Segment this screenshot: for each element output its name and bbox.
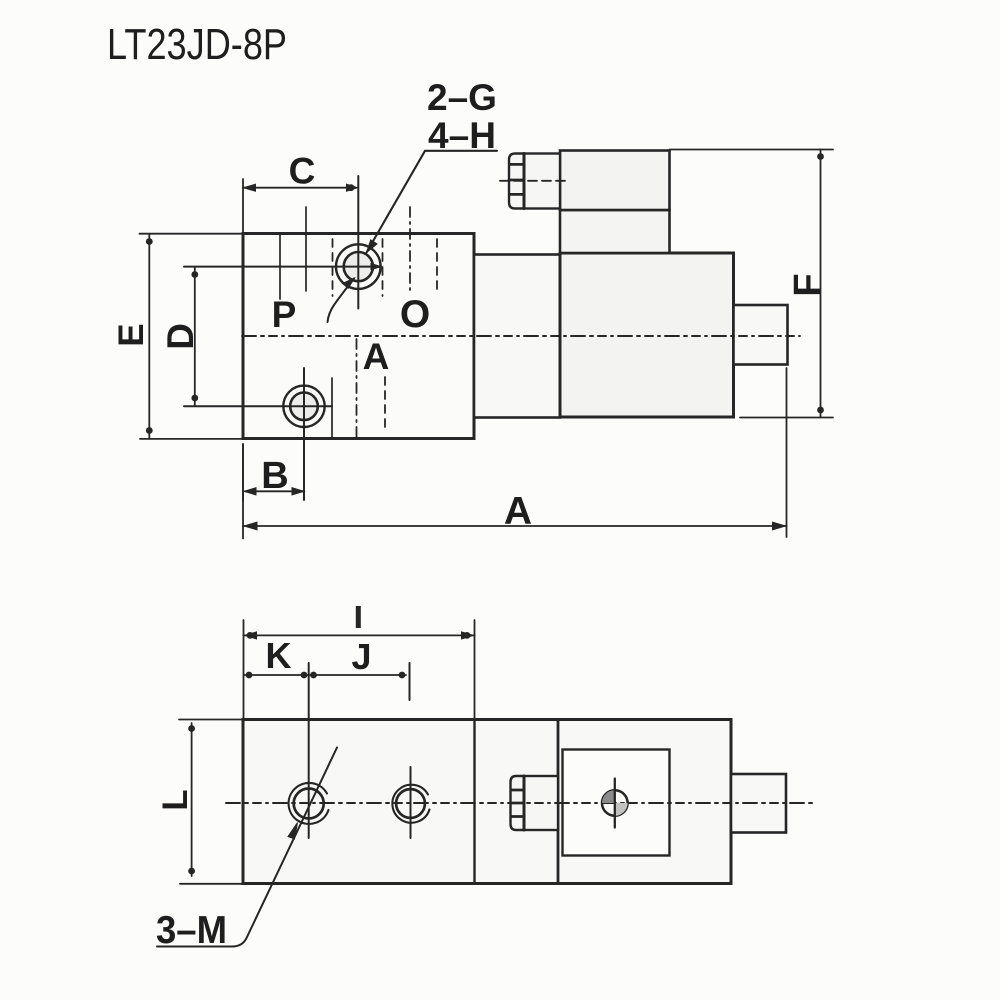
dimension D line [194, 267, 196, 406]
main center line (dash-dot) [242, 335, 800, 337]
lower center line [226, 802, 815, 804]
dimension E extension bottom [140, 438, 243, 440]
port A hole inner circle [290, 393, 318, 421]
leader blob on thread arc [288, 823, 298, 840]
svg-text:P: P [272, 294, 297, 335]
3-M underline and leader [157, 748, 337, 947]
svg-text:J: J [351, 636, 371, 677]
lower gland plain part [524, 776, 558, 830]
dimension I extension left [243, 620, 245, 720]
lower body outline [243, 720, 731, 884]
adapter section [474, 255, 560, 418]
svg-text:O: O [400, 293, 430, 336]
cable gland threaded part [509, 154, 524, 209]
hidden line g lower solid [331, 378, 333, 439]
svg-text:2–G: 2–G [427, 77, 497, 118]
hole1 horizontal center line [184, 266, 381, 268]
leader2 at hole1 lower left [328, 279, 355, 323]
lower inner square [563, 750, 670, 856]
svg-text:A: A [504, 490, 532, 533]
hole 3-M inner circle [294, 789, 324, 819]
gland center line [500, 180, 568, 182]
screw shading lower-right [615, 803, 628, 816]
dimension A extension left [242, 444, 244, 539]
right port [734, 305, 788, 365]
port P hole outer circle [336, 244, 381, 289]
main valve body [243, 234, 474, 439]
hidden line c dashed [332, 239, 334, 296]
hole 3-M thread arc [289, 783, 329, 824]
hidden line b [305, 207, 307, 291]
lower adapter/solenoid boundary [557, 720, 560, 884]
hidden line d dashed [382, 239, 384, 296]
lower gland threaded part [511, 776, 525, 830]
svg-text:B: B [261, 455, 288, 497]
port P hole inner circle [344, 252, 373, 281]
dimension C extension left [242, 179, 244, 233]
dimension E extension top [140, 233, 244, 235]
hidden line f dashed [436, 239, 438, 294]
hidden line e dash-dot [409, 207, 411, 293]
hole1 vertical extension line [357, 176, 359, 309]
svg-text:3–M: 3–M [156, 909, 227, 952]
dimension A extension right [786, 368, 788, 537]
dimension E line [148, 234, 150, 438]
dimension L extension top [179, 719, 243, 721]
label I [356, 606, 361, 628]
cable gland plain part [524, 154, 560, 209]
coil neck [560, 210, 670, 253]
hidden line a [279, 234, 281, 300]
svg-text:LT23JD-8P: LT23JD-8P [107, 20, 287, 69]
screw circle [602, 790, 628, 816]
arrow on hole1 horizontal line [371, 264, 381, 270]
port A hole outer circle [283, 386, 324, 427]
lower body/adapter boundary [473, 720, 475, 884]
svg-text:E: E [112, 323, 151, 346]
dimension I extension right [474, 620, 476, 720]
dimension F extension bottom [740, 417, 833, 419]
hidden line i lower dashed [384, 377, 386, 431]
hole2 vertical line upper stub [409, 663, 411, 700]
svg-text:4–H: 4–H [428, 115, 496, 156]
hole 3-M vertical line [308, 663, 310, 838]
screw shading upper-left [602, 790, 615, 803]
hole2 thread arc [392, 785, 429, 823]
dimension F line [820, 150, 822, 418]
solenoid body [560, 253, 734, 417]
dimension K/J line [244, 674, 407, 676]
svg-text:D: D [160, 323, 201, 350]
hole2 vertical extension line [303, 368, 305, 500]
hole2 vertical line [410, 767, 412, 838]
dimension B extension [242, 444, 244, 501]
hole2 horizontal center line [184, 405, 332, 407]
hole2 inner circle [396, 789, 425, 818]
svg-text:A: A [363, 336, 390, 377]
dimension F extension top [670, 149, 834, 151]
hidden line h lower dash-dot [356, 339, 358, 442]
lower gland thread lines [511, 790, 525, 817]
dimension A line [243, 525, 787, 527]
svg-text:K: K [266, 635, 292, 676]
svg-text:C: C [289, 151, 316, 192]
svg-text:F: F [787, 273, 829, 296]
dimension L extension bottom [180, 883, 243, 885]
underline below 4-H label and leader to hole1 [367, 151, 498, 253]
svg-text:L: L [156, 789, 195, 810]
screw vertical line [614, 779, 616, 828]
dimension B line [245, 490, 303, 492]
connector block [560, 151, 670, 211]
lower right port [731, 774, 786, 833]
dimension I line [244, 634, 475, 636]
dimension L line [191, 723, 193, 876]
dimension C line [243, 187, 355, 189]
gland thread lines [509, 164, 524, 194]
